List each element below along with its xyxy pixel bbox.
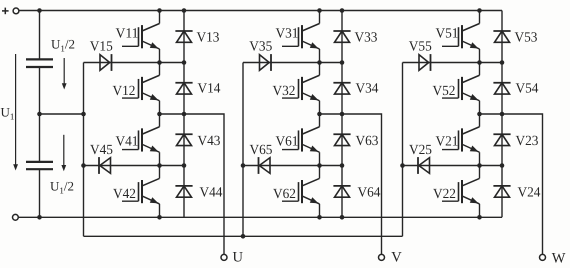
svg-text:V32: V32 bbox=[273, 84, 296, 99]
IGBT V21 bbox=[442, 114, 480, 166]
diode V23 bbox=[493, 134, 510, 145]
junction dots phase W bbox=[400, 8, 504, 219]
IGBT V62 bbox=[282, 166, 320, 218]
clamp diode V25 bbox=[418, 157, 430, 174]
diode V53 bbox=[493, 31, 510, 42]
svg-text:V62: V62 bbox=[273, 187, 296, 202]
svg-text:V24: V24 bbox=[518, 185, 541, 200]
wire phase W output bbox=[480, 114, 543, 255]
svg-text:V13: V13 bbox=[197, 31, 220, 46]
wire lower clamp row phase W bbox=[403, 165, 503, 167]
diode V43 bbox=[175, 134, 192, 145]
junction - rail / capacitor bbox=[37, 215, 42, 220]
clamp diode V15 bbox=[100, 54, 112, 71]
IGBT V11 bbox=[122, 11, 160, 63]
diode V33 bbox=[333, 31, 350, 42]
IGBT V52 bbox=[442, 63, 480, 115]
voltage arrow U1/2 upper bbox=[63, 58, 65, 85]
junction + rail / capacitor bbox=[37, 8, 42, 13]
terminal W bbox=[540, 254, 546, 260]
clamp diode V35 bbox=[260, 54, 272, 71]
terminal - bbox=[13, 214, 19, 220]
IGBT V31 bbox=[282, 11, 320, 63]
svg-text:V11: V11 bbox=[116, 27, 139, 42]
svg-text:U: U bbox=[233, 250, 244, 266]
svg-text:V23: V23 bbox=[516, 134, 539, 149]
capacitor C1 bbox=[26, 59, 53, 67]
terminal + bbox=[13, 8, 19, 14]
IGBT V51 bbox=[442, 11, 480, 63]
svg-text:V65: V65 bbox=[250, 143, 273, 158]
svg-text:U1/2: U1/2 bbox=[51, 37, 75, 54]
clamp diode V45 bbox=[99, 157, 111, 174]
wire upper clamp row phase V bbox=[243, 62, 342, 64]
wire capacitor column bottom bbox=[39, 169, 41, 217]
wire neutral vertical leg3 bbox=[402, 63, 404, 237]
wire upper clamp row phase U bbox=[84, 62, 185, 64]
capacitor C2 bbox=[26, 162, 53, 169]
svg-text:V21: V21 bbox=[436, 134, 459, 149]
svg-text:V43: V43 bbox=[198, 134, 221, 149]
diode V63 bbox=[333, 134, 350, 145]
svg-text:V12: V12 bbox=[113, 84, 136, 99]
svg-text:V45: V45 bbox=[90, 143, 113, 158]
junction dots phase V bbox=[241, 8, 345, 219]
wire phase V output bbox=[320, 114, 382, 255]
wire neutral tap bbox=[40, 113, 84, 115]
svg-text:V34: V34 bbox=[356, 82, 379, 97]
wire capacitor column top bbox=[39, 11, 41, 60]
IGBT V22 bbox=[442, 166, 480, 218]
positive DC rail bbox=[19, 10, 502, 12]
svg-text:V25: V25 bbox=[409, 143, 432, 158]
IGBT V41 bbox=[122, 114, 160, 166]
junction neutral tap / neutral rail bbox=[81, 112, 86, 117]
svg-text:U1: U1 bbox=[1, 105, 15, 122]
junction dots phase U bbox=[81, 8, 186, 219]
wire upper clamp row phase W bbox=[403, 62, 503, 64]
terminal U bbox=[221, 254, 227, 260]
svg-text:V51: V51 bbox=[436, 27, 459, 42]
svg-text:V: V bbox=[391, 249, 402, 265]
svg-text:W: W bbox=[552, 251, 566, 267]
junction capacitor midpoint bbox=[37, 112, 42, 117]
wire diode column phase U bbox=[183, 11, 185, 218]
svg-text:V15: V15 bbox=[90, 40, 113, 55]
wire lower clamp row phase U bbox=[84, 165, 185, 167]
diode V34 bbox=[333, 83, 350, 94]
terminal V bbox=[379, 254, 385, 260]
svg-text:V55: V55 bbox=[409, 40, 432, 55]
clamp diode V55 bbox=[419, 54, 431, 71]
IGBT V32 bbox=[282, 63, 320, 115]
wire neutral bus bbox=[84, 235, 403, 237]
diode V14 bbox=[175, 83, 192, 94]
svg-text:V33: V33 bbox=[355, 31, 378, 46]
svg-text:U1/2: U1/2 bbox=[50, 179, 74, 196]
svg-text:V64: V64 bbox=[358, 185, 381, 200]
wire diode column phase V bbox=[341, 11, 343, 218]
IGBT V12 bbox=[122, 63, 160, 115]
wire diode column phase W bbox=[501, 11, 503, 218]
diode V24 bbox=[493, 186, 510, 197]
negative DC rail bbox=[18, 216, 502, 218]
diode V13 bbox=[175, 31, 192, 42]
svg-text:V41: V41 bbox=[116, 134, 139, 149]
svg-text:V54: V54 bbox=[516, 82, 539, 97]
svg-text:V52: V52 bbox=[433, 84, 456, 99]
IGBT V42 bbox=[122, 166, 160, 218]
voltage arrow U1/2 lower bbox=[63, 135, 65, 166]
svg-text:V42: V42 bbox=[113, 187, 136, 202]
svg-text:V14: V14 bbox=[198, 82, 221, 97]
voltage arrow U1 bbox=[15, 54, 17, 166]
wire neutral vertical leg2 bbox=[242, 63, 244, 237]
svg-text:V53: V53 bbox=[515, 31, 538, 46]
wire lower clamp row phase V bbox=[243, 165, 342, 167]
svg-text:V35: V35 bbox=[249, 40, 272, 55]
wire phase U output bbox=[160, 114, 225, 255]
diode V54 bbox=[493, 83, 510, 94]
clamp diode V65 bbox=[259, 157, 271, 174]
svg-text:V22: V22 bbox=[433, 187, 456, 202]
wire neutral vertical leg1 bbox=[83, 63, 85, 237]
svg-text:V61: V61 bbox=[276, 134, 299, 149]
junction neutral bus leg2 bbox=[241, 234, 246, 239]
svg-text:V44: V44 bbox=[200, 185, 223, 200]
IGBT V61 bbox=[282, 114, 320, 166]
svg-text:V31: V31 bbox=[276, 27, 299, 42]
wire between capacitors bbox=[39, 67, 41, 161]
diode V44 bbox=[175, 186, 192, 197]
diode V64 bbox=[333, 186, 350, 197]
svg-text:V63: V63 bbox=[356, 134, 379, 149]
plus sign bbox=[2, 8, 9, 15]
